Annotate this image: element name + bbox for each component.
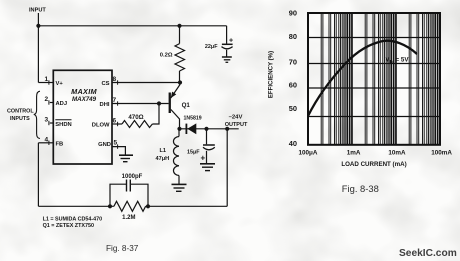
svg-text:90: 90 (289, 9, 297, 18)
svg-text:0.2Ω: 0.2Ω (160, 53, 173, 59)
svg-text:1000pF: 1000pF (122, 174, 143, 180)
svg-text:Q1 = ZETEX ZTX750: Q1 = ZETEX ZTX750 (43, 223, 94, 229)
svg-text:Q1: Q1 (182, 102, 191, 109)
svg-text:FB: FB (56, 142, 64, 148)
svg-text:SHDN: SHDN (55, 122, 71, 128)
svg-text:40: 40 (289, 139, 297, 148)
svg-text:6: 6 (113, 118, 117, 125)
svg-text:V+: V+ (56, 81, 64, 87)
svg-text:47μH: 47μH (156, 156, 170, 162)
svg-text:INPUT: INPUT (29, 8, 46, 14)
svg-text:7: 7 (113, 97, 117, 104)
svg-text:LOAD CURRENT (mA): LOAD CURRENT (mA) (341, 161, 406, 168)
svg-text:1.2M: 1.2M (122, 215, 135, 221)
svg-text:70: 70 (289, 58, 297, 67)
svg-text:MAX749: MAX749 (72, 96, 97, 103)
svg-text:+: + (229, 38, 233, 45)
svg-text:470Ω: 470Ω (128, 114, 143, 121)
svg-text:SeekIC.com: SeekIC.com (399, 248, 457, 259)
svg-text:INPUTS: INPUTS (10, 116, 30, 122)
svg-text:15μF: 15μF (187, 150, 200, 156)
svg-text:22μF: 22μF (205, 44, 218, 50)
svg-text:EFFICIENCY (%): EFFICIENCY (%) (268, 51, 275, 98)
svg-text:+: + (201, 154, 206, 163)
svg-text:DLOW: DLOW (92, 123, 110, 129)
svg-text:1mA: 1mA (347, 150, 361, 157)
svg-text:100μA: 100μA (299, 150, 318, 157)
svg-text:100mA: 100mA (431, 150, 452, 157)
svg-text:60: 60 (289, 81, 297, 90)
svg-text:–24V: –24V (229, 114, 243, 120)
svg-text:VIN = 5V: VIN = 5V (386, 57, 410, 64)
svg-text:DHI: DHI (100, 102, 110, 108)
svg-text:Fig. 8-38: Fig. 8-38 (342, 183, 379, 194)
svg-text:OUTPUT: OUTPUT (225, 122, 248, 128)
svg-text:3: 3 (45, 117, 49, 124)
svg-text:GND: GND (98, 142, 111, 148)
svg-text:1: 1 (45, 76, 49, 83)
svg-text:80: 80 (289, 32, 297, 41)
svg-text:4: 4 (45, 136, 49, 143)
svg-text:ADJ: ADJ (56, 101, 68, 107)
svg-text:5: 5 (114, 140, 118, 147)
svg-text:8: 8 (113, 76, 117, 83)
svg-text:50: 50 (289, 104, 297, 113)
svg-text:MAXIM: MAXIM (71, 87, 97, 96)
svg-text:2: 2 (45, 96, 49, 103)
svg-text:1N5819: 1N5819 (184, 116, 202, 122)
svg-text:CONTROL: CONTROL (7, 109, 34, 115)
svg-text:L1: L1 (160, 148, 167, 154)
svg-text:Fig. 8-37: Fig. 8-37 (106, 244, 139, 253)
svg-text:L1 = SUMIDA CD54-470: L1 = SUMIDA CD54-470 (43, 217, 103, 223)
svg-text:10mA: 10mA (388, 150, 406, 157)
svg-text:CS: CS (101, 81, 109, 87)
